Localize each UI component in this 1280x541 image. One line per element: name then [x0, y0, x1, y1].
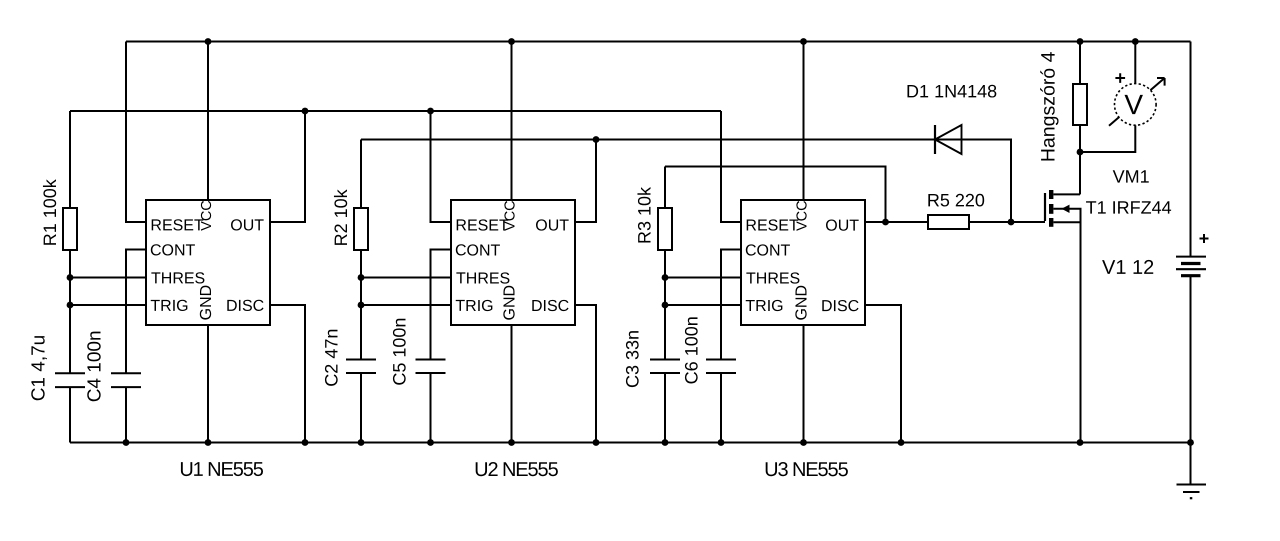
svg-text:CONT: CONT	[745, 243, 791, 260]
junction R1 THRES	[67, 274, 74, 281]
wire U2 VCC pin to rail	[511, 42, 513, 201]
junction T1 source ground rail	[1077, 439, 1084, 446]
wire U3 DISC drop	[865, 305, 901, 443]
wire R2 bottom to THRES TRIG and C2	[360, 250, 362, 360]
svg-text:OUT: OUT	[535, 217, 569, 234]
svg-text:VCC: VCC	[199, 200, 215, 231]
svg-text:GND: GND	[198, 285, 215, 321]
wire U2 RESET drop	[431, 111, 452, 222]
junction U2 RESET node	[427, 108, 434, 115]
svg-text:Hangszóró 4: Hangszóró 4	[1038, 51, 1060, 162]
svg-text:V1 12: V1 12	[1102, 257, 1154, 279]
svg-text:OUT: OUT	[825, 218, 859, 235]
wire U3 OUT to R5	[865, 221, 928, 223]
wire battery bottom lead	[1190, 276, 1192, 443]
svg-text:RESET: RESET	[745, 218, 799, 235]
svg-text:TRIG: TRIG	[150, 298, 188, 315]
svg-text:C6 100n: C6 100n	[681, 316, 701, 384]
svg-text:C4 100n: C4 100n	[84, 330, 105, 402]
junction R1 TRIG	[67, 302, 74, 309]
capacitor C3	[650, 360, 680, 374]
svg-text:CONT: CONT	[150, 242, 196, 259]
junction U2 OUT node	[593, 136, 600, 143]
capacitor C4	[111, 373, 141, 387]
wire U1 TRIG stub	[70, 304, 146, 306]
wire U1 DISC drop	[270, 305, 305, 443]
wire VM1 bottom lead to speaker node	[1080, 125, 1135, 152]
wire U1 CONT to C4	[126, 250, 146, 374]
diode D1	[935, 125, 962, 154]
svg-text:D1 1N4148: D1 1N4148	[906, 81, 997, 101]
junction U3 GND ground rail	[800, 439, 807, 446]
capacitor C1	[55, 373, 85, 387]
junction R3 THRES	[662, 274, 669, 281]
wire ground bottom rail	[70, 442, 1191, 444]
op-amp U2 timer IC box	[451, 200, 575, 325]
svg-text:GND: GND	[793, 285, 810, 321]
wire U1 THRES stub	[70, 277, 146, 279]
junction VM1 on top rail	[1132, 38, 1139, 45]
wire U3 CONT to C6	[721, 250, 741, 360]
capacitor C5	[416, 360, 446, 374]
junction C5 ground rail	[427, 439, 434, 446]
svg-text:VCC: VCC	[795, 200, 811, 231]
wire U3 VCC pin to rail	[803, 42, 805, 201]
junction R2 TRIG	[358, 302, 365, 309]
junction U1 GND ground rail	[205, 439, 212, 446]
svg-text:U3 NE555: U3 NE555	[764, 459, 848, 481]
svg-text:GND: GND	[501, 285, 518, 321]
op-amp U3 timer IC box	[741, 200, 865, 325]
junction speaker on top rail	[1077, 38, 1084, 45]
wire U2 CONT to C5	[431, 250, 452, 360]
svg-text:R2 10k: R2 10k	[331, 188, 351, 246]
junction D1 gate line	[1008, 219, 1015, 226]
svg-text:DISC: DISC	[821, 298, 859, 315]
junction U3 VCC on top rail	[800, 38, 807, 45]
speaker Hangszoro rectangle	[1073, 84, 1087, 125]
wire C2 bottom lead	[360, 373, 362, 443]
wire T1 drain up	[1079, 152, 1081, 194]
wire R3 bottom to THRES TRIG and C3	[664, 250, 666, 360]
svg-text:VCC: VCC	[503, 200, 519, 231]
wire U2 TRIG stub	[361, 304, 451, 306]
wire ground symbol lead	[1190, 443, 1192, 485]
svg-text:R1 100k: R1 100k	[40, 178, 60, 246]
resistor R3	[658, 208, 672, 250]
junction U2 GND ground rail	[508, 439, 515, 446]
junction battery ground rail	[1187, 439, 1194, 446]
svg-text:CONT: CONT	[455, 242, 501, 259]
svg-text:C2 47n: C2 47n	[321, 329, 341, 387]
wire C6 bottom lead	[720, 373, 722, 443]
junction U1 OUT node	[302, 108, 309, 115]
wire U2 THRES stub	[361, 277, 451, 279]
svg-text:RESET: RESET	[150, 217, 204, 234]
wire U1 VCC pin to rail	[207, 42, 209, 201]
svg-text:C3 33n: C3 33n	[622, 330, 642, 388]
wire C4 bottom lead	[125, 387, 127, 442]
resistor R5	[928, 215, 969, 229]
wire U1 OUT up to node	[270, 111, 305, 222]
svg-text:C1 4,7u: C1 4,7u	[28, 335, 49, 402]
junction R3 TRIG	[662, 302, 669, 309]
wire battery top lead	[1190, 42, 1192, 257]
op-amp U1 timer IC box	[146, 200, 270, 325]
svg-text:RESET: RESET	[455, 217, 509, 234]
ground	[1177, 485, 1207, 499]
wire R1 top lead	[69, 111, 71, 208]
wire U1 RESET drop from VCC rail	[126, 42, 146, 223]
wire speaker bottom lead	[1079, 125, 1081, 152]
wire speaker top lead	[1079, 42, 1081, 85]
svg-text:TRIG: TRIG	[455, 298, 493, 315]
wire U3 GND to ground rail	[803, 325, 805, 443]
pin labels U2	[455, 200, 569, 320]
resistor R1	[63, 208, 77, 250]
junction U2 DISC ground rail	[593, 439, 600, 446]
wire C3 bottom lead	[664, 373, 666, 443]
svg-text:T1 IRFZ44: T1 IRFZ44	[1086, 198, 1172, 218]
svg-text:OUT: OUT	[230, 217, 264, 234]
junction U2 VCC on top rail	[508, 38, 515, 45]
wire node U2-OUT horizontal run to D1	[361, 140, 1011, 223]
junction C4 ground rail	[123, 439, 130, 446]
wire U3 RESET drop	[721, 111, 741, 222]
junction U1 VCC on top rail	[205, 38, 212, 45]
wire VM1 top lead	[1134, 42, 1136, 84]
voltmeter VM1	[1109, 73, 1165, 126]
junction speaker VM1 bottom node	[1077, 149, 1084, 156]
pin labels U3	[745, 200, 859, 320]
wire U3 THRES stub	[665, 277, 741, 279]
svg-text:TRIG: TRIG	[745, 298, 783, 315]
transistor T1 MOSFET	[1045, 190, 1081, 443]
svg-text:THRES: THRES	[746, 271, 800, 288]
wire R2 top lead	[360, 140, 362, 209]
wire node U1-OUT horizontal run	[70, 110, 721, 112]
junction R2 THRES	[358, 274, 365, 281]
wire R5 to T1 gate	[969, 221, 1045, 223]
svg-text:V: V	[1124, 89, 1143, 120]
svg-text:VM1: VM1	[1113, 167, 1150, 187]
battery V1	[1176, 234, 1209, 276]
svg-text:U2 NE555: U2 NE555	[474, 459, 558, 481]
wire U2 DISC drop	[575, 305, 597, 443]
capacitor C6	[706, 360, 736, 374]
wire C5 bottom lead	[430, 373, 432, 443]
svg-text:R3 10k: R3 10k	[635, 186, 655, 244]
svg-text:U1 NE555: U1 NE555	[179, 459, 263, 481]
junction U3 OUT gate line	[882, 219, 889, 226]
wire U3 TRIG stub	[665, 304, 741, 306]
wire U2 OUT up to node	[575, 140, 597, 223]
resistor R2	[354, 208, 368, 250]
wire U1 GND to ground rail	[207, 325, 209, 443]
junction U1 DISC ground rail	[302, 439, 309, 446]
svg-text:DISC: DISC	[226, 298, 264, 315]
junction C6 ground rail	[718, 439, 725, 446]
capacitor C2	[346, 360, 376, 374]
junction C3 ground rail	[662, 439, 669, 446]
wire R3 top lead	[664, 167, 666, 209]
pin labels U1	[150, 200, 264, 320]
svg-text:C5 100n: C5 100n	[389, 318, 409, 386]
junction C2 ground rail	[358, 439, 365, 446]
wire R1 bottom to THRES TRIG and C1	[69, 250, 71, 373]
wire VCC top rail	[126, 41, 1191, 43]
svg-text:R5 220: R5 220	[927, 190, 985, 210]
junction U3 DISC ground rail	[898, 439, 905, 446]
wire node U3-OUT feedback run	[665, 167, 886, 223]
wire U2 GND to ground rail	[511, 325, 513, 443]
wire C1 bottom lead	[69, 387, 71, 442]
svg-text:DISC: DISC	[531, 298, 569, 315]
